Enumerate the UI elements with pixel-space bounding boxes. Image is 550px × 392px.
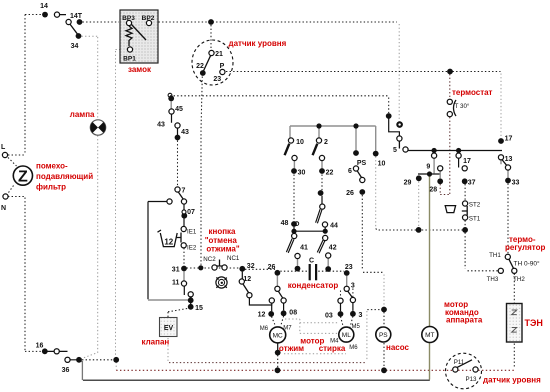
svg-text:T 30°: T 30° <box>455 103 470 110</box>
svg-text:34: 34 <box>71 43 79 50</box>
svg-text:MT: MT <box>425 332 434 339</box>
svg-text:9: 9 <box>426 164 430 171</box>
svg-text:TH1: TH1 <box>489 252 501 259</box>
svg-text:P11: P11 <box>454 359 465 366</box>
svg-text:Z: Z <box>18 169 28 186</box>
svg-text:M5: M5 <box>352 324 361 330</box>
svg-text:17: 17 <box>505 136 513 143</box>
svg-text:регулятор: регулятор <box>505 243 545 252</box>
svg-text:PS: PS <box>379 332 388 339</box>
svg-text:22: 22 <box>326 170 334 177</box>
svg-text:12: 12 <box>164 238 173 247</box>
svg-text:ТЭН: ТЭН <box>525 318 543 328</box>
svg-text:32: 32 <box>247 263 255 270</box>
svg-text:P: P <box>220 63 225 70</box>
svg-text:отжим: отжим <box>279 344 304 353</box>
svg-text:TH2: TH2 <box>513 276 525 283</box>
svg-text:33: 33 <box>512 180 520 187</box>
svg-text:ST2: ST2 <box>469 202 481 209</box>
svg-text:23: 23 <box>345 264 353 271</box>
svg-text:BP1: BP1 <box>123 56 136 63</box>
svg-text:ML: ML <box>342 332 351 339</box>
svg-text:29: 29 <box>404 180 412 187</box>
svg-text:IE2: IE2 <box>187 245 197 252</box>
svg-text:45: 45 <box>175 106 183 113</box>
svg-text:датчик уровня: датчик уровня <box>483 376 541 385</box>
svg-text:36: 36 <box>62 367 70 374</box>
svg-text:44: 44 <box>330 223 338 230</box>
svg-text:28: 28 <box>429 187 437 194</box>
svg-text:аппарата: аппарата <box>446 316 483 325</box>
svg-text:03: 03 <box>325 313 333 320</box>
svg-text:13: 13 <box>505 156 513 163</box>
svg-text:23: 23 <box>213 76 221 83</box>
svg-text:L: L <box>1 144 6 151</box>
svg-text:MC: MC <box>273 332 283 339</box>
svg-text:M6: M6 <box>260 326 269 332</box>
svg-text:клапан: клапан <box>142 338 170 347</box>
svg-text:3: 3 <box>359 312 363 319</box>
svg-text:датчик уровня: датчик уровня <box>229 39 287 48</box>
svg-text:42: 42 <box>329 245 337 252</box>
svg-text:14T: 14T <box>70 13 83 20</box>
svg-text:10: 10 <box>296 139 304 146</box>
svg-text:кнопка: кнопка <box>208 227 236 236</box>
svg-text:помехо-: помехо- <box>36 162 68 171</box>
svg-text:26: 26 <box>268 264 276 271</box>
svg-text:отжима": отжима" <box>206 245 240 254</box>
svg-text:16: 16 <box>36 343 44 350</box>
svg-text:термостат: термостат <box>452 88 493 97</box>
svg-text:41: 41 <box>300 245 308 252</box>
svg-text:фильтр: фильтр <box>36 183 66 192</box>
svg-text:IE1: IE1 <box>187 229 197 236</box>
svg-text:NC2: NC2 <box>203 256 216 263</box>
svg-text:12: 12 <box>243 276 251 283</box>
svg-text:P13: P13 <box>465 376 477 383</box>
svg-text:10: 10 <box>378 161 386 168</box>
svg-text:замок: замок <box>128 65 152 74</box>
svg-text:C: C <box>309 258 314 265</box>
svg-text:7: 7 <box>182 188 186 195</box>
svg-text:17: 17 <box>463 158 471 165</box>
svg-text:15: 15 <box>195 305 203 312</box>
svg-text:43: 43 <box>157 122 165 129</box>
svg-text:43: 43 <box>181 129 189 136</box>
svg-text:M7: M7 <box>283 326 292 332</box>
svg-text:07: 07 <box>187 209 195 216</box>
svg-text:48: 48 <box>281 220 289 227</box>
svg-text:3: 3 <box>351 283 355 290</box>
svg-text:26: 26 <box>346 190 354 197</box>
svg-text:BP3: BP3 <box>122 15 135 22</box>
svg-text:стирка: стирка <box>319 344 346 353</box>
svg-text:6: 6 <box>348 168 352 175</box>
svg-text:ST1: ST1 <box>469 216 481 223</box>
svg-text:конденсатор: конденсатор <box>288 281 339 290</box>
svg-text:насос: насос <box>386 343 410 352</box>
svg-text:лампа: лампа <box>70 110 95 119</box>
svg-text:ТН 0-90°: ТН 0-90° <box>514 260 540 268</box>
svg-text:08: 08 <box>289 310 297 317</box>
svg-text:22: 22 <box>196 63 204 70</box>
svg-text:M6: M6 <box>349 345 358 351</box>
svg-text:31: 31 <box>172 267 180 274</box>
svg-text:TH3: TH3 <box>487 276 499 283</box>
svg-text:5: 5 <box>393 147 397 154</box>
svg-text:2: 2 <box>324 139 328 146</box>
svg-text:30: 30 <box>298 170 306 177</box>
svg-text:NC1: NC1 <box>227 255 240 262</box>
svg-text:PS: PS <box>357 160 367 167</box>
svg-text:N: N <box>1 205 6 212</box>
svg-text:11: 11 <box>172 280 180 287</box>
svg-text:подавляющий: подавляющий <box>36 172 93 181</box>
svg-text:14: 14 <box>40 3 48 10</box>
svg-text:12: 12 <box>258 312 266 319</box>
svg-text:BP2: BP2 <box>142 15 155 22</box>
svg-text:EV: EV <box>164 325 174 332</box>
svg-text:37: 37 <box>468 180 476 187</box>
svg-text:21: 21 <box>215 51 223 58</box>
